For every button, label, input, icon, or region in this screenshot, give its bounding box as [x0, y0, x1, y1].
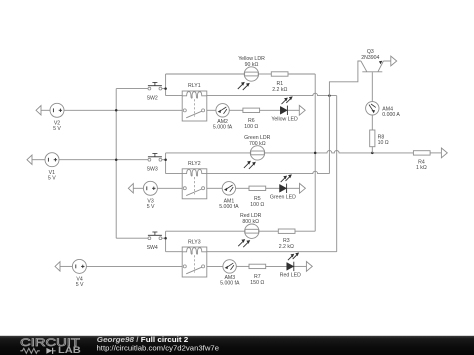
svg-text:RLY1: RLY1	[188, 83, 201, 89]
svg-text:RLY3: RLY3	[188, 239, 201, 245]
svg-text:2.2 kΩ: 2.2 kΩ	[279, 244, 294, 250]
wire Q3 emitter to port	[383, 60, 390, 62]
resistor R4	[413, 151, 430, 171]
wire V1 row	[32, 159, 45, 161]
node junction left bus / V1	[115, 158, 118, 161]
resistor R8	[370, 130, 389, 147]
node junction rail / bus A	[314, 152, 317, 155]
svg-text:5.000 fA: 5.000 fA	[219, 204, 239, 210]
svg-text:10 Ω: 10 Ω	[378, 140, 389, 146]
svg-text:Yellow LED: Yellow LED	[271, 117, 298, 123]
svg-text:Yellow LDR: Yellow LDR	[238, 56, 265, 62]
wire SW4 riser to red LDR row and RLY3 coil	[165, 231, 167, 252]
svg-text:700 kΩ: 700 kΩ	[249, 141, 266, 147]
wire V4 row	[60, 265, 72, 267]
wire yellow LDR row	[166, 73, 245, 75]
wire RLY1 coil return	[207, 93, 337, 95]
port node after Yellow LED	[299, 105, 305, 115]
node junction SW3 riser	[164, 158, 167, 161]
svg-text:SW2: SW2	[147, 95, 158, 101]
port node after Green LED	[300, 183, 306, 193]
resistor R6	[243, 108, 260, 130]
switch SW3	[147, 154, 162, 173]
voltage source V2	[50, 103, 64, 132]
svg-text:5.000 fA: 5.000 fA	[213, 125, 233, 131]
port node V3	[128, 184, 133, 193]
wire SW3 riser to green LDR row and RLY2 coil	[165, 153, 167, 174]
photoresistor Yellow LDR	[238, 56, 265, 90]
svg-text:5 V: 5 V	[53, 126, 61, 132]
svg-text:100 Ω: 100 Ω	[244, 124, 258, 130]
svg-text:1 kΩ: 1 kΩ	[416, 165, 427, 171]
photoresistor Red LDR	[238, 213, 261, 247]
diode Red LED	[280, 253, 301, 279]
port node V4	[55, 262, 60, 271]
svg-text:0.000 A: 0.000 A	[382, 112, 400, 118]
relay RLY2	[182, 161, 207, 199]
wire SW4 branch	[116, 237, 148, 239]
wire right rail bus A	[314, 74, 316, 231]
svg-text:2.2 kΩ: 2.2 kΩ	[272, 87, 287, 93]
wire V2 row	[41, 109, 50, 111]
port node Q3 emitter	[391, 56, 397, 66]
port node after Red LED	[306, 262, 312, 272]
wire RLY3 coil return	[207, 251, 337, 253]
wire RLY2 coil return	[207, 171, 330, 173]
CircuitLab logo	[20, 337, 81, 355]
transistor Q3	[361, 49, 384, 72]
resistor R5	[249, 186, 266, 208]
node junction SW4 riser	[164, 237, 167, 240]
ammeter AM3	[220, 260, 240, 287]
wire left supply bus	[115, 89, 117, 239]
port node V1	[27, 155, 32, 164]
port node V2	[36, 106, 41, 115]
wire Q3 base to AM4 and R8	[371, 72, 373, 101]
wire SW2 riser to yellow LDR row and RLY1 coil	[165, 74, 167, 96]
svg-text:5 V: 5 V	[147, 204, 155, 210]
wire yellow contact row	[207, 109, 216, 111]
svg-text:Red LED: Red LED	[280, 272, 301, 278]
resistor R3	[278, 229, 295, 250]
svg-text:SW3: SW3	[147, 166, 158, 172]
voltage source V4	[72, 259, 86, 288]
ammeter AM2	[213, 104, 233, 131]
relay RLY3	[182, 239, 207, 277]
node junction RLY1-coil / Q3 collector	[328, 94, 331, 97]
ammeter AM1	[219, 182, 239, 210]
ammeter AM4	[366, 102, 401, 118]
relay RLY1	[182, 83, 207, 121]
wire red LDR row	[166, 230, 245, 232]
svg-text:100 Ω: 100 Ω	[250, 202, 264, 208]
wire green LDR row / main rail	[166, 152, 251, 154]
diode Yellow LED	[271, 96, 298, 122]
svg-text:RLY2: RLY2	[188, 161, 201, 167]
switch SW4	[147, 232, 162, 251]
switch SW2	[147, 82, 162, 101]
svg-text:90 kΩ: 90 kΩ	[245, 62, 259, 68]
wire Q3 collector path	[329, 61, 361, 174]
svg-text:5.000 fA: 5.000 fA	[220, 281, 240, 287]
svg-text:SW4: SW4	[147, 245, 158, 251]
svg-text:LAB: LAB	[58, 345, 81, 355]
wire red contact row	[207, 265, 223, 267]
port node after R4	[441, 148, 447, 158]
wire SW2 branch	[116, 88, 148, 90]
photoresistor Green LDR	[244, 135, 271, 169]
node junction rail / R8	[371, 152, 374, 155]
node junction SW2 riser	[164, 87, 167, 90]
svg-text:800 kΩ: 800 kΩ	[242, 219, 259, 225]
node junction left bus / V2	[115, 109, 118, 112]
svg-text:5 V: 5 V	[48, 175, 56, 181]
svg-text:150 Ω: 150 Ω	[250, 280, 264, 286]
svg-text:5 V: 5 V	[76, 282, 84, 288]
svg-text:2N3904: 2N3904	[361, 55, 379, 61]
voltage source V3	[143, 181, 157, 210]
diode Green LED	[270, 174, 296, 200]
svg-text:Green LED: Green LED	[270, 194, 296, 200]
wire V3 row	[133, 187, 143, 189]
wire green contact row	[207, 187, 222, 189]
resistor R7	[249, 264, 266, 286]
wire bus C to RLY3 coil	[336, 96, 338, 252]
resistor R1	[271, 72, 288, 93]
voltage source V1	[45, 153, 59, 182]
svg-text:http://circuitlab.com/cy7d2van: http://circuitlab.com/cy7d2van3fw7e	[97, 344, 220, 353]
